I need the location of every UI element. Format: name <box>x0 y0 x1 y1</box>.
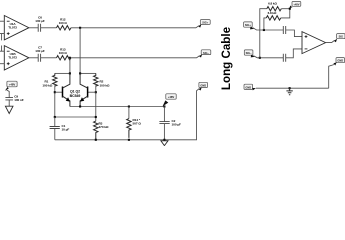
node R3 bottom <box>95 139 97 141</box>
wire U1B inverting input <box>0 46 4 52</box>
svg-text:GND: GND <box>200 84 206 88</box>
wire phantom feed v2 <box>264 18 266 30</box>
svg-text:6.8 kΩ: 6.8 kΩ <box>268 11 277 15</box>
wire +48V to C9 <box>6 90 9 98</box>
op-amp U1B <box>4 46 29 70</box>
resistor R12 <box>57 18 72 30</box>
svg-text:100 µF: 100 µF <box>35 49 45 53</box>
svg-text:SIG: SIG <box>339 35 343 39</box>
wire output to SIG flag <box>326 40 335 42</box>
wire R1 top to Q1 collector <box>55 72 70 74</box>
node ground rail <box>289 87 291 89</box>
wire R2 bottom to R3 top <box>95 85 97 121</box>
node Q1 base <box>54 91 56 93</box>
capacitor C9 <box>5 95 23 107</box>
node C1 top <box>54 116 56 118</box>
resistor R1 <box>42 73 57 87</box>
wire U1A inverting input <box>0 20 4 22</box>
wire emitter rail <box>70 106 164 108</box>
svg-text:6.8 kΩ: 6.8 kΩ <box>268 2 277 6</box>
wire lower resistor to 48V node <box>281 9 290 18</box>
resistor R3 <box>94 121 109 140</box>
flag SIG- receiver <box>244 50 254 58</box>
wire base link <box>55 116 96 118</box>
flag SIG+ receiver <box>244 22 254 30</box>
svg-text:SIG+: SIG+ <box>202 21 208 25</box>
svg-text:BC549: BC549 <box>70 94 81 98</box>
svg-text:100 nF: 100 nF <box>14 98 24 102</box>
svg-text:Long Cable: Long Cable <box>220 26 233 90</box>
wire cap row2 to op-amp - <box>286 49 302 58</box>
flag SIG+ <box>198 20 210 28</box>
flag GND out <box>333 58 344 66</box>
node row1/collector Q2 <box>79 27 81 29</box>
wire cap row1 to op-amp + <box>286 30 302 37</box>
node R14 bottom <box>128 139 130 141</box>
wire Q1 collector riser <box>69 58 71 74</box>
wire phantom feed v1 <box>260 9 267 58</box>
node R3 top <box>95 116 97 118</box>
node Q1 collector <box>69 72 71 74</box>
wire R13 to SIG- flag <box>71 56 200 58</box>
svg-text:+48V: +48V <box>293 2 299 6</box>
wire Q2 collector to R2 top <box>80 72 96 74</box>
node row2/collector Q1 <box>69 57 71 59</box>
svg-text:GND: GND <box>245 85 251 89</box>
wire ground rail <box>55 89 199 140</box>
svg-text:100 µF: 100 µF <box>35 19 45 23</box>
svg-text:+48V: +48V <box>168 95 175 99</box>
wire SIG- to row2 <box>253 56 283 58</box>
flag +48V receiver <box>290 2 301 9</box>
resistor R2 <box>94 73 110 87</box>
svg-text:507 Ω: 507 Ω <box>133 122 142 126</box>
flag GND left block <box>199 82 208 90</box>
svg-text:470 kΩ: 470 kΩ <box>99 125 109 129</box>
transistor Q1 <box>55 73 70 106</box>
wire C7 to R13 <box>41 57 57 59</box>
capacitor row2 <box>283 54 285 62</box>
wire C6 to R12 <box>41 27 57 29</box>
resistor R14 <box>127 107 142 138</box>
capacitor C7 <box>35 46 45 62</box>
node R14 top <box>128 105 130 107</box>
node C2 bottom <box>163 139 165 141</box>
ground receiver <box>286 88 292 95</box>
flag +48V supply left <box>5 81 17 91</box>
node C2 top <box>163 105 165 107</box>
svg-text:100 µF: 100 µF <box>172 123 182 127</box>
flag +48V emitter node <box>163 94 177 107</box>
wire upper resistor to 48V node <box>281 8 290 10</box>
wire SIG+ to row1 <box>253 28 284 30</box>
svg-text:Q1 Q2: Q1 Q2 <box>70 90 80 94</box>
wire GND out to ground rail <box>329 65 335 89</box>
wire U1B output to C7 <box>29 57 38 59</box>
wire R12 to SIG+ flag <box>71 26 199 28</box>
op-amp U1A <box>4 16 29 40</box>
node phantom row2 <box>259 57 261 59</box>
resistor 6.8k upper <box>267 2 281 11</box>
svg-text:10 µF: 10 µF <box>62 128 70 132</box>
flag SIG- <box>199 50 211 58</box>
op-amp receiver <box>302 32 326 54</box>
node Q2 collector <box>79 72 81 74</box>
capacitor C6 <box>35 16 45 32</box>
capacitor C1 <box>50 117 70 140</box>
svg-text:100 Ω: 100 Ω <box>59 21 68 25</box>
transistor Q2 <box>80 73 96 106</box>
svg-text:SIG+: SIG+ <box>245 23 251 27</box>
svg-text:+48V: +48V <box>9 83 16 87</box>
capacitor C2 <box>159 107 181 140</box>
resistor R13 <box>57 48 72 60</box>
node phantom row1 <box>263 29 265 31</box>
wire Q2 collector riser <box>79 28 81 74</box>
svg-text:GND: GND <box>337 59 343 63</box>
ground left block <box>161 141 168 146</box>
node 48V <box>289 8 291 10</box>
svg-text:100 kΩ: 100 kΩ <box>42 83 52 87</box>
svg-text:TL072: TL072 <box>8 56 17 60</box>
wire R1 bottom to C1 node <box>54 85 56 117</box>
resistor 6.8k lower <box>266 11 280 20</box>
svg-text:100 Ω: 100 Ω <box>59 51 68 55</box>
svg-text:SIG−: SIG− <box>203 51 209 55</box>
flag SIG out <box>334 34 345 43</box>
flag GND receiver <box>244 84 256 90</box>
capacitor row1 <box>283 26 285 34</box>
wire U1A output to C6 <box>29 27 38 29</box>
svg-text:TL072: TL072 <box>8 25 17 29</box>
node emitters <box>79 105 81 107</box>
wire U1A non-inverting input <box>0 34 4 41</box>
wire U1B non-inverting input <box>0 63 4 65</box>
node Q2 base <box>95 91 97 93</box>
ground C9 <box>5 106 13 113</box>
svg-text:100 kΩ: 100 kΩ <box>100 83 110 87</box>
wire receiver ground rail <box>256 87 329 89</box>
svg-text:SIG−: SIG− <box>246 51 252 55</box>
